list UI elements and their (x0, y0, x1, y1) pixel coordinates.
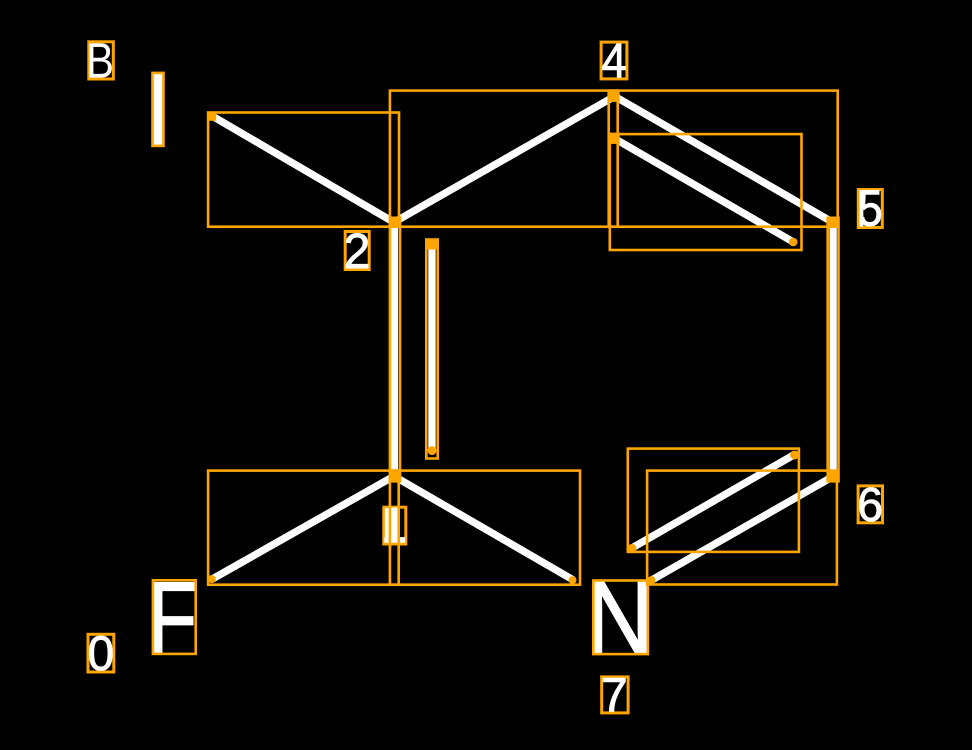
node marker C2C1 inner top (427, 239, 437, 249)
wire bond C2-C4 (394, 96, 615, 222)
label 1 (384, 505, 406, 549)
node marker F end (208, 575, 216, 583)
node marker C2 (389, 217, 399, 227)
wire bond C1-F (212, 476, 394, 579)
node marker I end (207, 112, 216, 121)
atom N label (594, 582, 647, 653)
node marker C4C5 inner end (789, 238, 798, 247)
wire bond C4-C5 main (615, 96, 832, 222)
node marker C4C5 inner start (610, 133, 620, 144)
node marker C4 (610, 91, 620, 102)
bbox atom I (153, 73, 164, 146)
bbox atom F (153, 580, 196, 654)
bbox bond C1-F (208, 471, 399, 585)
node marker C6N inner right (790, 451, 799, 460)
atom F label (154, 583, 194, 654)
wire bond C4-C5 inner (615, 139, 793, 242)
node marker C5 (826, 217, 836, 227)
wire V-N box left edge over label 1 (389, 505, 392, 549)
label 6 (858, 486, 882, 523)
node marker C6-N end (648, 576, 656, 584)
wire bond I-C2 (213, 116, 395, 222)
bbox bond C5-C6 (828, 218, 839, 482)
bbox bond C6-N inner (628, 449, 799, 552)
node marker C6 (828, 471, 839, 481)
bbox bond C2-C1 inner (426, 240, 437, 459)
bbox bond C2-C4 (390, 91, 618, 227)
bbox bond C4-C5 inner (610, 134, 802, 250)
node marker N-C1 end (569, 576, 577, 584)
wire bond C6-N main (652, 477, 833, 580)
bbox bond C6-N main (647, 471, 837, 585)
atom I label (154, 74, 163, 146)
label 7 (602, 677, 628, 713)
bbox bond C4-C5 main (609, 91, 838, 227)
wire bond C6-N inner (632, 455, 795, 549)
label 3 (89, 42, 114, 79)
bbox atom N (593, 581, 648, 655)
label 4 (601, 42, 627, 79)
wire bond C5-C6 (829, 222, 836, 477)
wire bond N-C1 (394, 476, 573, 580)
label 5 (858, 190, 882, 228)
wire bond C2-C1 inner (428, 244, 435, 451)
label 0 (88, 634, 114, 672)
wire bond C2-C1 main (391, 222, 398, 476)
bbox bond N-C1 (390, 471, 580, 585)
bbox bond I-C2 (208, 113, 399, 227)
bbox bond C2-C1 main (390, 218, 400, 482)
wire V-F box right edge over label 1 (397, 505, 400, 549)
node marker C2C1 inner bottom (428, 446, 437, 455)
node marker C6N inner left (628, 544, 637, 553)
label 2 (345, 232, 369, 270)
node marker C1 (389, 469, 399, 480)
